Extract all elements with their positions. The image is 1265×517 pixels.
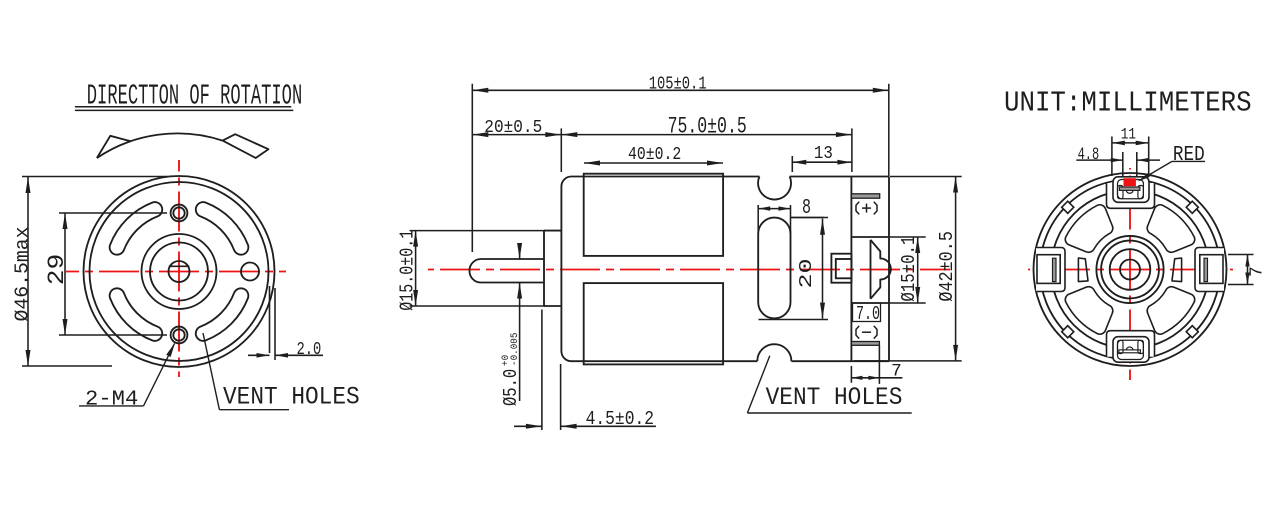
svg-text:RED: RED [1173,143,1205,167]
svg-text:VENT HOLES: VENT HOLES [766,384,903,412]
svg-text:75.0±0.5: 75.0±0.5 [668,114,747,140]
svg-text:8: 8 [802,196,811,220]
svg-text:7.0: 7.0 [856,303,880,325]
svg-text:2.0: 2.0 [297,338,322,360]
svg-text:40±0.2: 40±0.2 [628,144,681,165]
svg-text:7: 7 [891,362,902,382]
svg-text:11: 11 [1121,127,1136,144]
svg-text:7: 7 [1247,266,1265,277]
svg-text:4.8: 4.8 [1078,146,1100,165]
svg-text:4.5±0.2: 4.5±0.2 [586,409,654,430]
svg-text:Ø46.5max: Ø46.5max [12,227,34,322]
svg-text:DIRECTTON OF ROTATION: DIRECTTON OF ROTATION [87,81,302,114]
svg-text:105±0.1: 105±0.1 [649,73,707,95]
svg-text:UNIT:MILLIMETERS: UNIT:MILLIMETERS [1004,87,1252,120]
svg-text:20: 20 [796,258,817,288]
svg-text:Ø42±0.5: Ø42±0.5 [937,231,959,302]
svg-text:-0.005: -0.005 [509,333,521,366]
svg-text:VENT HOLES: VENT HOLES [223,383,360,411]
svg-text:20±0.5: 20±0.5 [484,118,542,138]
svg-text:Ø5.0: Ø5.0 [502,369,523,406]
svg-text:29: 29 [44,254,70,286]
svg-text:13: 13 [814,144,833,164]
svg-text:Ø15.0±0.1: Ø15.0±0.1 [398,230,419,311]
svg-text:2-M4: 2-M4 [85,387,138,411]
svg-text:Ø15±0.1: Ø15±0.1 [899,236,921,302]
